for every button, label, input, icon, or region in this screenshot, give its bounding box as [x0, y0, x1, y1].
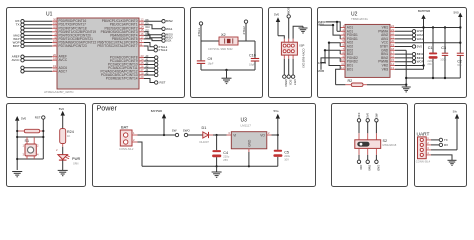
wires U1 right to terminals: [144, 21, 162, 82]
wire XTAL2 down: [245, 23, 247, 41]
terminal SWO: [184, 133, 187, 136]
wire U3 gnd down: [248, 152, 250, 166]
svg-text:28: 28: [141, 71, 144, 75]
svg-text:X2: X2: [221, 33, 226, 37]
power 5V0 reset: [15, 116, 19, 121]
svg-text:20v: 20v: [427, 62, 432, 66]
svg-text:30: 30: [53, 18, 56, 22]
svg-text:OFF: OFF: [359, 165, 363, 171]
section box power: [93, 104, 316, 187]
svg-text:5V0: 5V0: [274, 13, 280, 17]
ground: [402, 87, 411, 92]
wire R2 to ground: [367, 84, 406, 86]
capacitor C4: [216, 135, 218, 150]
svg-text:TX: TX: [16, 23, 20, 27]
terminal SCK: [287, 75, 290, 78]
node junctions left: [336, 21, 338, 23]
svg-text:LM1117: LM1117: [241, 124, 252, 128]
svg-text:GND: GND: [247, 139, 251, 147]
node junction: [225, 69, 227, 71]
svg-text:CRYSTAL SMD 5032: CRYSTAL SMD 5032: [208, 47, 233, 51]
wire MOSI down: [288, 18, 290, 39]
svg-text:MISO: MISO: [284, 80, 288, 88]
svg-text:WA1: WA1: [166, 27, 173, 31]
U2 pin stubs: [340, 28, 395, 70]
svg-text:CONN-SIL4: CONN-SIL4: [416, 159, 431, 163]
svg-text:WOP: WOP: [417, 60, 424, 64]
wire switch top rail: [17, 136, 43, 138]
svg-text:PWR: PWR: [72, 157, 81, 161]
svg-text:CONN-SIL2: CONN-SIL2: [119, 147, 134, 151]
svg-text:C10: C10: [249, 54, 256, 58]
svg-text:23: 23: [141, 54, 144, 58]
svg-text:RST: RST: [35, 116, 41, 120]
ground: [222, 70, 232, 84]
svg-text:BATPWR: BATPWR: [418, 9, 430, 13]
svg-text:22: 22: [391, 32, 394, 36]
svg-text:100n: 100n: [440, 57, 446, 61]
wire VO to 5V0: [272, 134, 278, 136]
section box UART: [415, 104, 467, 187]
svg-text:C3: C3: [441, 46, 446, 50]
wire BAT- down: [138, 142, 143, 166]
svg-text:D13: D13: [146, 38, 151, 40]
terminal SW: [175, 133, 178, 136]
wire ground rail: [201, 69, 255, 71]
svg-text:22: 22: [53, 68, 56, 72]
svg-text:1K: 1K: [67, 134, 70, 138]
U1 left pin stubs and numbers: [52, 21, 57, 71]
svg-text:D10: D10: [146, 27, 151, 29]
svg-text:18: 18: [391, 47, 394, 51]
wires U1 left to terminals: [24, 21, 52, 71]
svg-text:13: 13: [141, 21, 144, 25]
svg-text:5V0: 5V0: [59, 107, 65, 111]
svg-text:5V0: 5V0: [417, 44, 423, 48]
wire crystal to C10: [238, 40, 255, 42]
wires U2 left cluster: [320, 22, 346, 85]
svg-text:XTAL2: XTAL2: [158, 48, 167, 52]
svg-text:17: 17: [391, 51, 394, 55]
svg-text:32: 32: [53, 25, 56, 29]
svg-text:21: 21: [391, 35, 394, 39]
resistor R24: [60, 129, 66, 144]
svg-text:OFF: OFF: [357, 112, 361, 118]
svg-text:TX: TX: [444, 138, 448, 142]
svg-text:14: 14: [141, 25, 144, 29]
svg-text:BAT: BAT: [121, 124, 129, 129]
U1 pin names right: [97, 19, 137, 80]
svg-text:C4: C4: [223, 151, 228, 155]
wire 5V0 to header pin1: [278, 36, 284, 39]
wire header pin3 to ground: [293, 26, 303, 39]
terminal XTAL2: [244, 20, 247, 23]
terminal TX: [431, 139, 439, 141]
svg-text:RX: RX: [444, 143, 448, 147]
svg-text:29: 29: [141, 75, 144, 79]
section box U1: [7, 8, 185, 98]
svg-text:23: 23: [391, 28, 394, 32]
svg-text:C9: C9: [208, 57, 213, 61]
svg-text:C2: C2: [457, 60, 462, 64]
svg-text:MOSI: MOSI: [287, 7, 291, 14]
switch S2 body: [355, 140, 381, 149]
section box crystal: [191, 8, 263, 98]
svg-text:D12: D12: [146, 34, 151, 36]
switch S2 wires top: [359, 122, 376, 133]
svg-text:BATPWR: BATPWR: [151, 109, 162, 113]
section box ISP: [269, 8, 312, 98]
svg-text:18pF: 18pF: [208, 62, 214, 66]
svg-text:24: 24: [141, 57, 144, 61]
svg-text:ATMEGA328P_32PIN: ATMEGA328P_32PIN: [44, 90, 73, 94]
wires header bottom to terminals: [284, 59, 293, 75]
capacitor C5: [277, 135, 279, 150]
svg-text:ADC7: ADC7: [59, 69, 68, 73]
svg-text:16: 16: [141, 32, 144, 36]
capacitor C2: [457, 52, 464, 54]
capacitor C9: [200, 41, 202, 60]
svg-text:5Vo: 5Vo: [274, 109, 279, 113]
capacitor C3: [444, 28, 446, 54]
terminal MOSI: [287, 15, 290, 18]
section box S2: [332, 104, 408, 187]
U1 right pin stubs and numbers: [139, 21, 144, 78]
wire XTAL1 to crystal: [201, 40, 219, 42]
switch S2 wires bottom: [359, 148, 376, 155]
svg-text:C5: C5: [284, 150, 289, 154]
svg-text:VO: VO: [260, 134, 265, 138]
wire VM1 rail: [395, 27, 460, 29]
svg-text:PD7/AIN1/PCINT23: PD7/AIN1/PCINT23: [59, 44, 87, 48]
svg-text:MSS22D18: MSS22D18: [383, 143, 397, 147]
svg-text:AVCC: AVCC: [59, 58, 68, 62]
svg-text:ISP: ISP: [300, 44, 305, 48]
svg-text:5V0: 5V0: [366, 113, 370, 118]
svg-text:SW0: SW0: [368, 165, 372, 171]
svg-text:U1: U1: [46, 12, 53, 18]
wire pin4 to ground: [431, 155, 452, 160]
connector J1 ISP header: [284, 39, 293, 59]
ground: [299, 26, 308, 33]
svg-text:5V0: 5V0: [454, 11, 460, 15]
svg-text:12: 12: [341, 66, 344, 70]
ground: [12, 172, 22, 177]
svg-text:WA1: WA1: [417, 37, 424, 41]
svg-text:S2: S2: [383, 139, 388, 143]
capacitor C10: [254, 41, 256, 58]
U2 pin names: [347, 26, 389, 72]
terminal XTAL1: [199, 22, 202, 25]
terminal circles U1 right: [154, 20, 165, 85]
svg-text:RST: RST: [160, 81, 166, 85]
svg-text:18pF: 18pF: [249, 62, 255, 66]
section box U2: [318, 8, 467, 98]
ground uart: [448, 160, 457, 165]
svg-text:BIN2: BIN2: [166, 19, 173, 23]
wire ground rail: [142, 165, 278, 167]
svg-text:5V0: 5V0: [21, 116, 27, 120]
svg-text:SW: SW: [172, 129, 177, 133]
svg-text:BO1: BO1: [347, 67, 354, 71]
ground led: [58, 170, 68, 175]
svg-text:10: 10: [53, 39, 56, 43]
svg-text:15: 15: [141, 28, 144, 32]
svg-text:5Vo: 5Vo: [453, 112, 458, 114]
wire XTAL1 down: [200, 25, 202, 41]
section box reset-led: [7, 104, 86, 187]
capacitor C1 electrolytic: [432, 28, 434, 53]
svg-text:17: 17: [141, 35, 144, 39]
svg-text:15: 15: [391, 58, 394, 62]
resistor R25: [17, 130, 24, 132]
svg-text:14: 14: [391, 62, 394, 66]
wire VM2 VM3: [395, 65, 424, 67]
svg-text:20: 20: [391, 39, 394, 43]
svg-text:D1: D1: [202, 126, 207, 130]
terminal RX: [431, 144, 439, 146]
svg-text:SCK: SCK: [166, 39, 172, 43]
svg-text:25V: 25V: [223, 158, 228, 162]
svg-text:AVCC: AVCC: [12, 58, 20, 62]
wire SWO to D1: [188, 134, 203, 136]
svg-text:SWO: SWO: [183, 129, 191, 133]
svg-text:R2: R2: [348, 79, 353, 83]
terminals S2 top: [357, 119, 360, 122]
svg-text:DL4007: DL4007: [200, 140, 210, 144]
svg-text:10: 10: [341, 58, 344, 62]
svg-text:GND: GND: [376, 165, 380, 171]
svg-text:27: 27: [141, 68, 144, 72]
terminal MISO: [283, 75, 286, 78]
svg-text:24: 24: [391, 24, 394, 28]
svg-text:PB7/TOSC2/XTAL2/PCINT7: PB7/TOSC2/XTAL2/PCINT7: [97, 44, 137, 48]
terminals U2 right: [395, 31, 412, 61]
tiny net labels on wires: [146, 20, 151, 76]
svg-text:PC6/RESET/PCINT14: PC6/RESET/PCINT14: [106, 77, 138, 81]
svg-text:VM3: VM3: [382, 67, 389, 71]
node junctions: [16, 130, 18, 132]
svg-text:CONN-BUS 2X3: CONN-BUS 2X3: [302, 49, 306, 69]
wire GND pin down: [395, 49, 406, 51]
svg-text:BINT: BINT: [13, 44, 20, 48]
ground: [212, 166, 222, 177]
svg-text:19: 19: [391, 43, 394, 47]
wire BAT+: [138, 134, 176, 136]
svg-text:TB6612FNG: TB6612FNG: [351, 17, 369, 21]
svg-text:GRN: GRN: [73, 163, 79, 166]
U2 pin numbers: [341, 24, 394, 70]
terminal RST: [291, 75, 294, 78]
svg-text:18: 18: [53, 57, 56, 61]
LED PWR: [58, 155, 68, 160]
svg-text:20: 20: [53, 53, 56, 57]
wire pin3 to 5V0: [431, 149, 457, 151]
svg-text:Power: Power: [97, 104, 118, 113]
wire ground rail: [406, 77, 460, 79]
wire switch bottom rail: [17, 158, 43, 160]
svg-text:60v: 60v: [457, 63, 462, 67]
terminals S2 bottom: [357, 160, 360, 163]
svg-text:SCK: SCK: [289, 80, 293, 86]
svg-text:13: 13: [391, 66, 394, 70]
U1 pin names left: [59, 19, 97, 73]
terminal circles U1 left: [21, 20, 24, 74]
wire D1 to U3: [213, 134, 227, 136]
svg-text:31: 31: [53, 21, 56, 25]
svg-text:R24: R24: [67, 130, 74, 134]
svg-text:19: 19: [53, 64, 56, 68]
svg-text:25: 25: [141, 61, 144, 65]
wire VCC to 5V0: [395, 42, 460, 44]
svg-text:26: 26: [141, 64, 144, 68]
IC U1 body ATMEGA328P: [57, 18, 139, 89]
svg-text:C1: C1: [428, 46, 433, 50]
svg-text:RST: RST: [293, 80, 297, 86]
svg-text:12: 12: [141, 18, 144, 22]
svg-text:10V: 10V: [284, 157, 289, 161]
svg-text:VI: VI: [233, 134, 236, 138]
svg-text:16: 16: [391, 54, 394, 58]
terminal RST: [42, 116, 45, 119]
svg-text:SW: SW: [374, 113, 378, 118]
